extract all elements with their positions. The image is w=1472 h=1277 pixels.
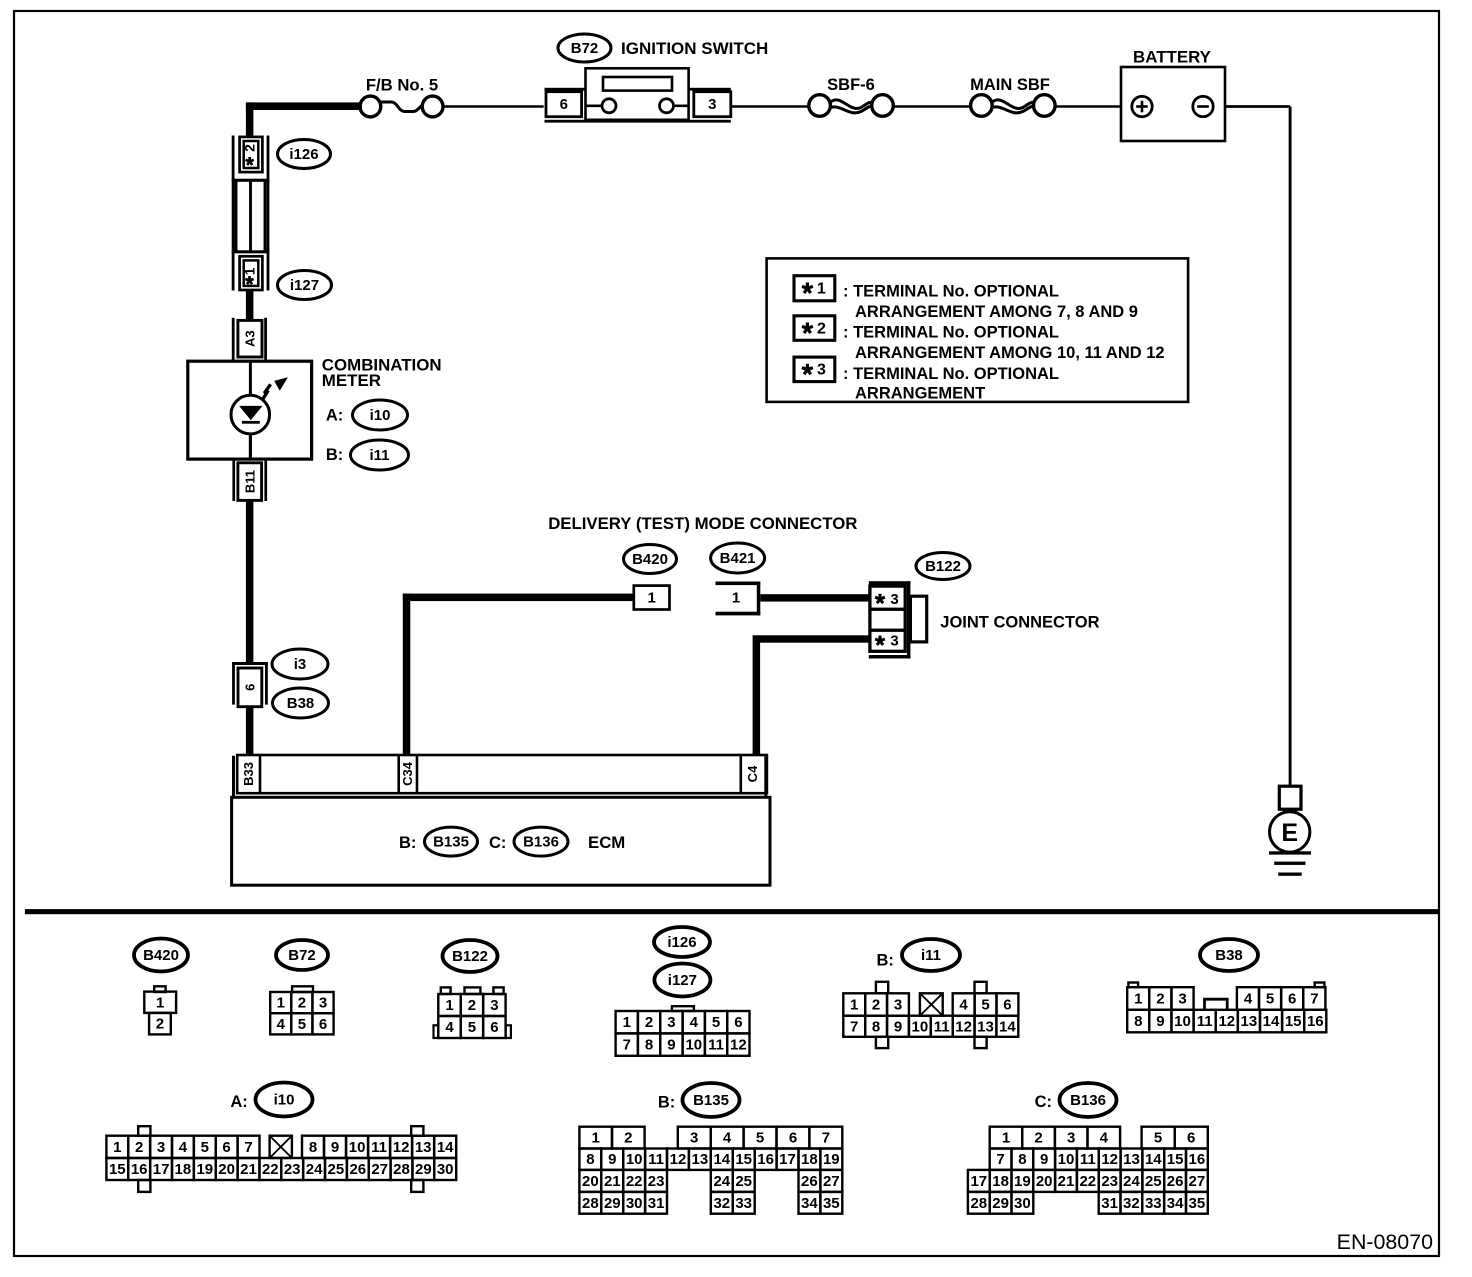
svg-text:B122: B122 [925,558,961,575]
svg-text:18: 18 [992,1173,1009,1190]
fusible link MAIN SBF [971,95,993,117]
connector label B72 (ignition switch) [558,34,611,62]
svg-text:5: 5 [298,1016,306,1033]
connector i126 pin *2 box [240,137,263,172]
svg-text:6: 6 [222,1139,230,1156]
svg-text:12: 12 [955,1018,972,1035]
svg-text:i11: i11 [369,447,389,464]
wire: B421 to joint connector *3 [760,594,870,601]
svg-text:B11: B11 [242,470,257,493]
svg-text:B136: B136 [523,834,559,851]
connector pinout i126/i127 [654,927,710,957]
connector label B420 [624,545,677,574]
svg-text:F/B No. 5: F/B No. 5 [366,76,438,95]
svg-text:9: 9 [1040,1151,1048,1168]
svg-text:3: 3 [890,633,898,650]
wire: B11 down to connector 6 [246,500,254,662]
svg-text:30: 30 [1014,1195,1031,1212]
connector label i3 [272,649,328,679]
svg-text:B420: B420 [143,947,179,964]
svg-text:2: 2 [156,1016,164,1033]
svg-text:31: 31 [1101,1195,1118,1212]
svg-text:3: 3 [690,1130,698,1147]
svg-text:27: 27 [823,1173,840,1190]
svg-text:6: 6 [490,1019,498,1036]
svg-text:19: 19 [1014,1173,1031,1190]
svg-text:B421: B421 [720,550,756,567]
pin C34 (ECM) [397,755,400,793]
svg-text:4: 4 [179,1139,188,1156]
switch SW (ignition switch body) [545,88,586,91]
svg-text:28: 28 [970,1195,987,1212]
svg-text:1: 1 [1002,1130,1010,1147]
pin 6 (ignition switch) [546,92,582,117]
svg-text:B38: B38 [287,695,315,712]
svg-text:5: 5 [468,1019,476,1036]
wire: i127 *1 to combination meter A3 [246,289,254,321]
svg-text:B72: B72 [288,947,316,964]
svg-text:22: 22 [626,1173,643,1190]
svg-text:10: 10 [685,1037,702,1054]
svg-text:A:: A: [230,1093,247,1111]
svg-text:B:: B: [877,952,894,970]
wire: MAIN SBF to battery [1054,105,1121,108]
svg-text:JOINT CONNECTOR: JOINT CONNECTOR [940,614,1099,632]
svg-text:14: 14 [999,1018,1016,1035]
connector label B136 (ECM) [514,827,568,856]
svg-text:11: 11 [1197,1013,1213,1030]
svg-text:12: 12 [670,1151,687,1168]
pin C4 (ECM) [740,755,743,793]
svg-text:B122: B122 [452,948,488,965]
wire: down from corner into i126 *2 [246,102,254,136]
pin 3 (ignition switch) [694,92,731,117]
svg-text:5: 5 [756,1130,764,1147]
svg-text:1: 1 [648,589,656,606]
svg-text:17: 17 [779,1151,796,1168]
svg-text:SBF-6: SBF-6 [827,76,875,94]
svg-text:9: 9 [331,1139,339,1156]
svg-text:16: 16 [1189,1151,1206,1168]
svg-text:7: 7 [244,1139,252,1156]
svg-text:DELIVERY (TEST) MODE CONNECTOR: DELIVERY (TEST) MODE CONNECTOR [548,514,857,533]
svg-text:i10: i10 [370,407,391,424]
svg-text:3: 3 [708,96,716,113]
svg-text:1: 1 [732,590,740,607]
joint connector side tab [910,596,926,642]
svg-text:12: 12 [1218,1013,1235,1030]
svg-text:: TERMINAL No. OPTIONAL: : TERMINAL No. OPTIONAL [843,324,1059,342]
svg-text:35: 35 [823,1195,840,1212]
connector pinout B122 [443,940,498,972]
svg-text:3: 3 [890,591,898,608]
svg-text:33: 33 [1145,1195,1162,1212]
svg-text:11: 11 [648,1151,664,1168]
note *1 box [794,276,835,301]
svg-text:4: 4 [445,1019,454,1036]
svg-text:18: 18 [175,1161,192,1178]
svg-text:B:: B: [326,446,343,464]
svg-text:1: 1 [445,997,453,1014]
svg-text:BATTERY: BATTERY [1133,48,1211,67]
svg-text:i10: i10 [274,1092,295,1109]
ground E [1279,786,1301,809]
svg-text:4: 4 [277,1016,286,1033]
svg-text:B33: B33 [241,762,256,786]
svg-text:E: E [1281,819,1298,847]
svg-text:1: 1 [1134,991,1142,1008]
svg-text:22: 22 [262,1161,279,1178]
lamp (indicator bulb) [231,395,270,434]
svg-text:3: 3 [667,1014,675,1031]
svg-text:3: 3 [319,995,327,1012]
svg-text:B136: B136 [1070,1092,1106,1109]
svg-text:5: 5 [1154,1130,1162,1147]
pin *3 bottom (B122) [879,636,882,641]
svg-text:METER: METER [322,371,381,390]
svg-text:ARRANGEMENT AMONG 10, 11 AND 1: ARRANGEMENT AMONG 10, 11 AND 12 [855,344,1165,362]
svg-text:23: 23 [284,1161,301,1178]
svg-text:6: 6 [242,684,257,691]
svg-text:3: 3 [490,997,498,1014]
svg-text:ARRANGEMENT AMONG 7, 8 AND 9: ARRANGEMENT AMONG 7, 8 AND 9 [855,303,1138,321]
svg-text:29: 29 [604,1195,621,1212]
svg-text:A:: A: [326,406,343,424]
svg-text:29: 29 [415,1161,432,1178]
svg-text:7: 7 [822,1130,830,1147]
pin *3 top (B122) [879,594,882,599]
svg-text:3: 3 [1178,991,1186,1008]
svg-text:B135: B135 [433,834,469,851]
svg-text:i127: i127 [668,972,697,989]
svg-text:10: 10 [349,1139,366,1156]
svg-text:MAIN SBF: MAIN SBF [970,76,1050,94]
svg-text:1: 1 [241,267,257,275]
svg-text:4: 4 [1244,991,1253,1008]
svg-text:2: 2 [817,320,826,337]
svg-text:30: 30 [437,1161,454,1178]
svg-text:26: 26 [1167,1173,1184,1190]
svg-text:21: 21 [1058,1173,1075,1190]
connector pin B11 (combination meter) [232,461,235,502]
note *3 box [794,357,835,382]
svg-text:i3: i3 [294,656,307,673]
svg-text:3: 3 [894,997,902,1014]
connector label B135 (ECM) [425,827,478,856]
svg-text:23: 23 [648,1173,665,1190]
svg-text:28: 28 [393,1161,410,1178]
svg-text:26: 26 [349,1161,366,1178]
svg-text:8: 8 [872,1018,880,1035]
svg-text:6: 6 [560,96,568,113]
svg-text:2: 2 [135,1139,143,1156]
svg-text:i127: i127 [290,277,319,294]
svg-text:4: 4 [1100,1130,1109,1147]
svg-text:C:: C: [489,834,506,852]
ECM connector strip [232,756,235,798]
svg-text:11: 11 [934,1018,950,1035]
svg-text:34: 34 [801,1195,818,1212]
svg-text:20: 20 [218,1161,235,1178]
svg-text:1: 1 [277,995,285,1012]
connector label i126 [278,140,331,169]
svg-text:28: 28 [582,1195,599,1212]
svg-text:A3: A3 [243,330,258,347]
svg-text:C34: C34 [400,761,415,786]
svg-text:25: 25 [1145,1173,1162,1190]
svg-text:9: 9 [1156,1013,1164,1030]
svg-text:16: 16 [1307,1013,1324,1030]
svg-text:EN-08070: EN-08070 [1337,1230,1433,1254]
svg-text:6: 6 [1288,991,1296,1008]
svg-text:3: 3 [1067,1130,1075,1147]
svg-text:6: 6 [734,1014,742,1031]
svg-text:8: 8 [309,1139,317,1156]
svg-text:18: 18 [801,1151,818,1168]
svg-text:B:: B: [399,834,416,852]
svg-text:20: 20 [1036,1173,1053,1190]
svg-text:: TERMINAL No. OPTIONAL: : TERMINAL No. OPTIONAL [843,283,1059,301]
svg-text:12: 12 [730,1037,747,1054]
svg-text:12: 12 [393,1139,410,1156]
svg-text:17: 17 [153,1161,170,1178]
svg-text:1: 1 [817,280,826,297]
svg-text:35: 35 [1189,1195,1206,1212]
wire: F/B No.5 to ignition switch pin 6 [442,105,544,108]
svg-text:13: 13 [977,1018,994,1035]
svg-text:5: 5 [981,997,989,1014]
svg-text:ECM: ECM [588,833,625,852]
svg-text:25: 25 [735,1173,752,1190]
connector pinout B38 [1200,939,1258,971]
svg-text:33: 33 [735,1195,752,1212]
svg-text:15: 15 [1167,1151,1184,1168]
svg-text:2: 2 [872,997,880,1014]
wire: connector 6 down to ECM B33 [246,707,254,755]
svg-text:ARRANGEMENT: ARRANGEMENT [855,385,985,403]
svg-text:26: 26 [801,1173,818,1190]
svg-text:16: 16 [131,1161,148,1178]
svg-text:20: 20 [582,1173,599,1190]
fusible link SBF-6 [809,95,831,117]
svg-text:5: 5 [1266,991,1274,1008]
svg-text:9: 9 [894,1018,902,1035]
svg-text:5: 5 [201,1139,209,1156]
svg-text:6: 6 [319,1016,327,1033]
svg-text:6: 6 [1003,997,1011,1014]
wire: ignition switch pin 3 to SBF-6 [731,105,808,108]
lamp arrow symbol [262,384,270,400]
svg-text:19: 19 [823,1151,840,1168]
connector pinout B72 [276,940,328,970]
ECM box [232,797,770,885]
svg-text:7: 7 [1310,991,1318,1008]
svg-text:IGNITION SWITCH: IGNITION SWITCH [621,39,768,58]
connector i126 pin *2 (rails) [232,136,235,291]
svg-text:9: 9 [608,1151,616,1168]
svg-text:7: 7 [623,1037,631,1054]
svg-text:6: 6 [1187,1130,1195,1147]
svg-text:1: 1 [592,1130,600,1147]
svg-text:C:: C: [1035,1093,1052,1111]
svg-text:12: 12 [1101,1151,1118,1168]
wire: battery feed horizontal to F/B No.5 [246,102,362,110]
svg-text:8: 8 [1134,1013,1142,1030]
svg-text:1: 1 [156,994,164,1011]
svg-text:32: 32 [713,1195,730,1212]
svg-text:24: 24 [1123,1173,1140,1190]
svg-text:2: 2 [468,997,476,1014]
note box: terminal arrangement notes [767,258,1189,402]
svg-text:10: 10 [912,1018,929,1035]
svg-text:8: 8 [586,1151,594,1168]
svg-text:24: 24 [713,1173,730,1190]
connector pin 6 (i3/B38) [232,662,268,665]
pin 1 (B421) [716,582,761,586]
svg-text:i126: i126 [667,934,696,951]
svg-text:15: 15 [735,1151,752,1168]
connector label i127 [278,271,332,300]
wire: joint connector *3 to ECM C4 [760,635,870,642]
svg-text:19: 19 [196,1161,213,1178]
svg-text:27: 27 [1189,1173,1206,1190]
connector label B38 [273,688,329,718]
svg-text:10: 10 [1058,1151,1075,1168]
svg-text:16: 16 [757,1151,774,1168]
svg-text:3: 3 [157,1139,165,1156]
svg-text:7: 7 [996,1151,1004,1168]
svg-text:3: 3 [817,362,826,379]
svg-text:30: 30 [626,1195,643,1212]
svg-text:4: 4 [690,1014,699,1031]
svg-text:8: 8 [645,1037,653,1054]
svg-text:2: 2 [298,995,306,1012]
svg-text:11: 11 [708,1037,724,1054]
svg-text:2: 2 [645,1014,653,1031]
svg-text:B:: B: [658,1094,675,1112]
svg-text:B420: B420 [632,551,668,568]
wire: SBF-6 to MAIN SBF [893,105,972,108]
fuse (meter circuit) between i126 and i127 [232,179,270,182]
svg-text:2: 2 [1156,991,1164,1008]
svg-text:2: 2 [242,144,258,152]
pin 1 (B420) [634,586,670,610]
svg-text:9: 9 [667,1037,675,1054]
svg-text:2: 2 [624,1130,632,1147]
svg-text:27: 27 [371,1161,388,1178]
svg-text:17: 17 [970,1173,987,1190]
svg-text:11: 11 [371,1139,387,1156]
svg-text:B135: B135 [693,1092,729,1109]
svg-text:: TERMINAL No. OPTIONAL: : TERMINAL No. OPTIONAL [843,365,1059,383]
svg-text:14: 14 [437,1139,454,1156]
svg-text:31: 31 [648,1195,665,1212]
connector label B122 [916,553,970,580]
svg-text:i126: i126 [289,146,318,163]
svg-text:15: 15 [109,1161,126,1178]
svg-text:8: 8 [1018,1151,1026,1168]
svg-text:13: 13 [1241,1013,1258,1030]
svg-text:1: 1 [623,1014,631,1031]
svg-text:29: 29 [992,1195,1009,1212]
wire: battery negative to ground E [1225,105,1290,108]
svg-text:25: 25 [328,1161,345,1178]
svg-text:10: 10 [626,1151,643,1168]
note *2 box [794,316,835,341]
svg-text:10: 10 [1174,1013,1191,1030]
svg-text:1: 1 [850,997,858,1014]
wire: C34 up/right to B420 pin 1 [403,594,411,755]
svg-text:B72: B72 [571,40,599,57]
svg-text:23: 23 [1101,1173,1118,1190]
connector i127 pin *1 box [240,256,263,290]
svg-text:34: 34 [1167,1195,1184,1212]
svg-text:32: 32 [1123,1195,1140,1212]
svg-text:4: 4 [959,997,968,1014]
pin B33 (ECM) [259,755,262,793]
svg-text:21: 21 [604,1173,621,1190]
connector pinout B420 [134,939,188,972]
svg-text:14: 14 [1263,1013,1280,1030]
svg-text:14: 14 [1145,1151,1162,1168]
svg-text:C4: C4 [745,765,760,782]
svg-text:14: 14 [713,1151,730,1168]
svg-text:11: 11 [1080,1151,1096,1168]
combination meter box [188,361,312,459]
connector pin A3 (combination meter) [232,318,235,362]
svg-text:B38: B38 [1215,947,1243,964]
svg-text:i11: i11 [921,947,941,964]
svg-text:13: 13 [415,1139,432,1156]
fuse F/B No. 5 [360,96,381,117]
svg-text:13: 13 [1123,1151,1140,1168]
svg-text:7: 7 [850,1018,858,1035]
svg-text:21: 21 [240,1161,257,1178]
svg-text:15: 15 [1285,1013,1302,1030]
svg-text:2: 2 [1034,1130,1042,1147]
svg-text:4: 4 [723,1130,732,1147]
svg-text:13: 13 [692,1151,709,1168]
svg-text:1: 1 [113,1139,121,1156]
connector label B421 [711,543,765,573]
svg-text:22: 22 [1079,1173,1096,1190]
svg-text:24: 24 [306,1161,323,1178]
svg-text:5: 5 [712,1014,720,1031]
svg-text:6: 6 [789,1130,797,1147]
joint connector B122 body [869,581,911,585]
